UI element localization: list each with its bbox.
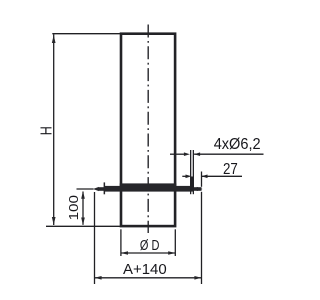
dia 6.2 right arrow (tip at hole right edge)	[194, 152, 200, 156]
ground collar (thick bar across post)	[120, 183, 177, 189]
svg-text:A+140: A+140	[123, 262, 167, 278]
A+140 arrow left	[95, 276, 102, 280]
A+140 right extension line	[201, 192, 203, 284]
right bolt hole fill through plate	[190, 177, 194, 192]
27 dim left tail	[182, 175, 186, 177]
O D arrow left	[121, 251, 128, 255]
A+140 arrow right	[194, 276, 201, 280]
plate right arrow tip	[197, 187, 203, 191]
post body outline	[121, 34, 175, 226]
svg-text:H: H	[39, 126, 56, 135]
O D right extension line	[174, 229, 176, 256]
H dim arrow up	[52, 35, 56, 43]
100 dimension line	[82, 192, 84, 225]
A+140 dimension line	[95, 277, 202, 279]
A+140 left extension line	[94, 192, 96, 284]
svg-text:Ø D: Ø D	[140, 238, 160, 254]
right bolt hole left line	[190, 150, 191, 194]
dia 6.2 left arrow (tip at hole left edge)	[184, 152, 190, 156]
left bolt hole tick	[104, 182, 106, 194]
27 dim right arrow (outside, tip at extension)	[202, 175, 208, 179]
100 dim arrow up	[81, 191, 85, 199]
centerline of post	[147, 25, 149, 234]
O D arrow right	[168, 251, 175, 255]
27 extension line	[201, 172, 203, 187]
svg-text:4xØ6,2: 4xØ6,2	[214, 136, 261, 153]
27 dim tail line	[202, 175, 243, 177]
svg-text:100: 100	[66, 195, 81, 220]
right bolt hole right line	[193, 150, 194, 194]
H dimension line	[53, 34, 55, 225]
svg-text:27: 27	[223, 161, 238, 178]
plate thicker inner band	[105, 186, 191, 192]
base plate (thin bar)	[99, 187, 202, 191]
dia 6.2 dim line left tail	[170, 153, 185, 155]
O D dimension line	[121, 252, 175, 254]
plate left arrow tip	[93, 187, 99, 191]
H dim top extension line	[52, 33, 121, 35]
100 dim arrow down	[81, 218, 85, 226]
H dim arrow down	[52, 217, 56, 225]
dia 6.2 dim line right tail	[194, 153, 263, 155]
27 dim left arrow (outside, tip at hole center)	[186, 175, 192, 179]
O D left extension line	[120, 229, 122, 256]
plate left tail line	[77, 188, 94, 190]
H dim bottom extension line	[46, 225, 120, 227]
